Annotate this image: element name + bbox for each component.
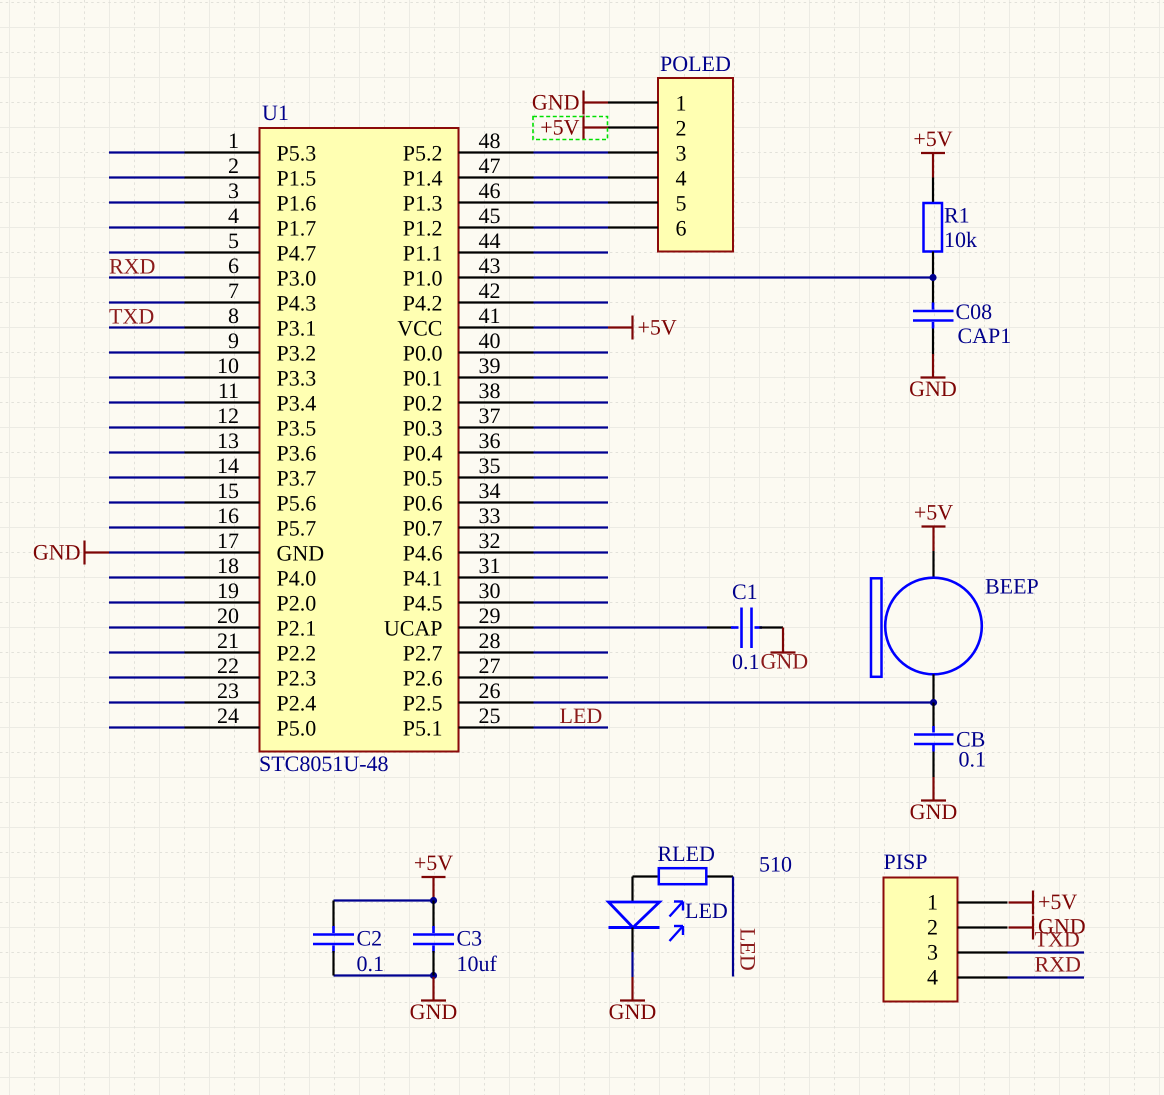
svg-text:0.1: 0.1 (357, 951, 385, 976)
svg-text:P1.0: P1.0 (403, 266, 443, 291)
svg-text:P4.7: P4.7 (277, 241, 317, 266)
svg-text:11: 11 (218, 378, 239, 403)
svg-text:22: 22 (217, 653, 239, 678)
svg-text:P4.1: P4.1 (403, 566, 443, 591)
svg-text:510: 510 (759, 852, 792, 877)
svg-text:P0.7: P0.7 (403, 516, 443, 541)
svg-text:P0.2: P0.2 (403, 391, 443, 416)
svg-text:RLED: RLED (658, 841, 715, 866)
svg-text:P5.0: P5.0 (277, 716, 317, 741)
svg-text:1: 1 (676, 91, 687, 116)
svg-text:C1: C1 (732, 579, 758, 604)
svg-text:+5V: +5V (914, 500, 953, 525)
svg-text:10: 10 (217, 353, 239, 378)
svg-text:R1: R1 (944, 203, 970, 228)
svg-text:P4.2: P4.2 (403, 291, 443, 316)
svg-text:+5V: +5V (913, 126, 952, 151)
svg-text:20: 20 (217, 603, 239, 628)
svg-text:24: 24 (217, 703, 239, 728)
svg-text:+5V: +5V (638, 315, 677, 340)
svg-text:GND: GND (410, 999, 458, 1024)
svg-text:RXD: RXD (1035, 952, 1081, 977)
svg-text:31: 31 (479, 553, 501, 578)
svg-text:P4.6: P4.6 (403, 541, 443, 566)
svg-text:STC8051U-48: STC8051U-48 (259, 751, 389, 776)
svg-text:19: 19 (217, 578, 239, 603)
svg-text:37: 37 (479, 403, 501, 428)
svg-text:POLED: POLED (660, 51, 731, 76)
svg-text:23: 23 (217, 678, 239, 703)
svg-text:P2.6: P2.6 (403, 666, 443, 691)
svg-text:4: 4 (676, 166, 687, 191)
svg-text:LED: LED (736, 928, 761, 971)
svg-text:P0.3: P0.3 (403, 416, 443, 441)
svg-text:GND: GND (532, 90, 580, 115)
svg-text:U1: U1 (262, 100, 289, 125)
svg-text:0.1: 0.1 (959, 747, 987, 772)
svg-text:GND: GND (761, 649, 809, 674)
svg-text:P0.0: P0.0 (403, 341, 443, 366)
svg-text:P3.3: P3.3 (277, 366, 317, 391)
svg-text:P5.1: P5.1 (403, 716, 443, 741)
svg-text:GND: GND (909, 376, 957, 401)
svg-text:4: 4 (228, 203, 239, 228)
svg-text:+5V: +5V (540, 115, 579, 140)
svg-text:P2.5: P2.5 (403, 691, 443, 716)
svg-text:1: 1 (228, 128, 239, 153)
svg-text:43: 43 (479, 253, 501, 278)
svg-text:P1.5: P1.5 (277, 166, 317, 191)
svg-text:9: 9 (228, 328, 239, 353)
svg-text:21: 21 (217, 628, 239, 653)
svg-text:32: 32 (479, 528, 501, 553)
svg-text:P0.1: P0.1 (403, 366, 443, 391)
svg-text:1: 1 (927, 890, 938, 915)
svg-text:0.1: 0.1 (732, 649, 760, 674)
svg-text:15: 15 (217, 478, 239, 503)
svg-text:5: 5 (676, 191, 687, 216)
svg-text:2: 2 (676, 116, 687, 141)
svg-text:5: 5 (228, 228, 239, 253)
svg-text:P3.6: P3.6 (277, 441, 317, 466)
svg-text:P1.1: P1.1 (403, 241, 443, 266)
svg-text:16: 16 (217, 503, 239, 528)
svg-text:P5.3: P5.3 (277, 141, 317, 166)
svg-text:P0.5: P0.5 (403, 466, 443, 491)
svg-text:P2.4: P2.4 (277, 691, 317, 716)
svg-text:P2.1: P2.1 (277, 616, 317, 641)
svg-text:P1.2: P1.2 (403, 216, 443, 241)
svg-text:14: 14 (217, 453, 239, 478)
svg-text:28: 28 (479, 628, 501, 653)
svg-text:44: 44 (479, 228, 501, 253)
svg-text:3: 3 (228, 178, 239, 203)
svg-text:P2.3: P2.3 (277, 666, 317, 691)
svg-text:P1.3: P1.3 (403, 191, 443, 216)
svg-text:4: 4 (927, 965, 938, 990)
svg-text:P0.4: P0.4 (403, 441, 443, 466)
svg-text:VCC: VCC (397, 316, 442, 341)
svg-text:P3.1: P3.1 (277, 316, 317, 341)
svg-text:40: 40 (479, 328, 501, 353)
svg-text:6: 6 (676, 216, 687, 241)
svg-text:2: 2 (228, 153, 239, 178)
svg-text:10uf: 10uf (457, 951, 498, 976)
svg-text:+5V: +5V (1038, 889, 1077, 914)
svg-text:+5V: +5V (414, 850, 453, 875)
svg-text:P0.6: P0.6 (403, 491, 443, 516)
svg-text:29: 29 (479, 603, 501, 628)
svg-text:P3.2: P3.2 (277, 341, 317, 366)
svg-text:P2.7: P2.7 (403, 641, 443, 666)
svg-text:RXD: RXD (109, 254, 155, 279)
svg-text:17: 17 (217, 528, 239, 553)
svg-text:P1.7: P1.7 (277, 216, 317, 241)
svg-text:13: 13 (217, 428, 239, 453)
svg-text:36: 36 (479, 428, 501, 453)
svg-text:45: 45 (479, 203, 501, 228)
svg-text:BEEP: BEEP (985, 574, 1039, 599)
svg-text:P5.6: P5.6 (277, 491, 317, 516)
svg-text:P1.6: P1.6 (277, 191, 317, 216)
svg-text:GND: GND (33, 540, 81, 565)
svg-text:7: 7 (228, 278, 239, 303)
svg-text:35: 35 (479, 453, 501, 478)
svg-text:GND: GND (277, 541, 325, 566)
svg-text:39: 39 (479, 353, 501, 378)
svg-text:3: 3 (927, 940, 938, 965)
svg-text:C3: C3 (457, 926, 483, 951)
svg-text:P4.0: P4.0 (277, 566, 317, 591)
svg-text:26: 26 (479, 678, 501, 703)
svg-text:P4.3: P4.3 (277, 291, 317, 316)
svg-text:C08: C08 (956, 299, 993, 324)
svg-text:C2: C2 (357, 926, 383, 951)
svg-text:18: 18 (217, 553, 239, 578)
svg-text:UCAP: UCAP (384, 616, 443, 641)
svg-text:38: 38 (479, 378, 501, 403)
svg-text:P5.7: P5.7 (277, 516, 317, 541)
svg-text:33: 33 (479, 503, 501, 528)
svg-text:2: 2 (927, 915, 938, 940)
svg-text:42: 42 (479, 278, 501, 303)
svg-text:25: 25 (479, 703, 501, 728)
svg-text:30: 30 (479, 578, 501, 603)
svg-text:GND: GND (910, 799, 958, 824)
svg-text:P2.2: P2.2 (277, 641, 317, 666)
svg-text:CAP1: CAP1 (958, 323, 1012, 348)
svg-text:47: 47 (479, 153, 501, 178)
svg-text:TXD: TXD (1035, 927, 1080, 952)
svg-text:P5.2: P5.2 (403, 141, 443, 166)
svg-text:6: 6 (228, 253, 239, 278)
svg-text:P1.4: P1.4 (403, 166, 443, 191)
svg-text:P3.0: P3.0 (277, 266, 317, 291)
svg-text:LED: LED (685, 898, 728, 923)
svg-text:12: 12 (217, 403, 239, 428)
svg-text:41: 41 (479, 303, 501, 328)
svg-text:8: 8 (228, 303, 239, 328)
svg-text:46: 46 (479, 178, 501, 203)
svg-text:P4.5: P4.5 (403, 591, 443, 616)
svg-text:3: 3 (676, 141, 687, 166)
svg-text:TXD: TXD (109, 304, 154, 329)
svg-text:34: 34 (479, 478, 501, 503)
svg-text:P3.5: P3.5 (277, 416, 317, 441)
svg-text:LED: LED (560, 703, 603, 728)
svg-text:48: 48 (479, 128, 501, 153)
svg-text:27: 27 (479, 653, 501, 678)
svg-text:10k: 10k (944, 227, 977, 252)
svg-text:P3.7: P3.7 (277, 466, 317, 491)
svg-text:GND: GND (609, 999, 657, 1024)
svg-text:P2.0: P2.0 (277, 591, 317, 616)
svg-text:PISP: PISP (884, 849, 928, 874)
svg-text:P3.4: P3.4 (277, 391, 317, 416)
